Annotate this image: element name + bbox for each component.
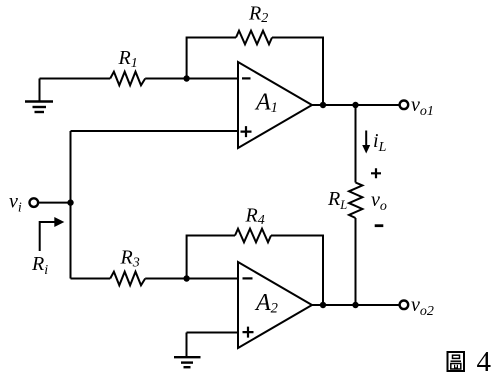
node J3 (R3/R4 junction) — [183, 275, 189, 281]
svg-text:RL: RL — [327, 188, 347, 212]
A1 plus pin mark — [241, 126, 252, 137]
wire: J1 up to R2 feedback — [187, 38, 236, 79]
wire: RL top segment — [355, 105, 357, 183]
node J1 (R1/R2 junction) — [183, 75, 189, 81]
A1 minus pin mark — [242, 77, 251, 79]
svg-text:vo2: vo2 — [411, 294, 434, 319]
wire: input node to R3 — [71, 278, 111, 280]
arrow iL — [365, 131, 367, 147]
wire: A2 output row — [312, 304, 400, 306]
A2 minus pin mark — [243, 277, 253, 279]
resistor R4 — [235, 229, 271, 243]
arrow Ri (input resistance) — [40, 222, 55, 251]
resistor RL (vertical) — [349, 183, 362, 219]
wire: A1 output row — [312, 104, 400, 106]
caption: character 圖 (drawn) — [448, 352, 465, 371]
svg-text:vi: vi — [9, 191, 22, 216]
node: A1 output / RL junction — [352, 102, 358, 108]
svg-text:R4: R4 — [245, 205, 265, 228]
svg-text:iL: iL — [373, 130, 387, 155]
op-amp A1 — [238, 62, 312, 148]
wire: R2 down to A1 output node — [272, 38, 323, 106]
wire: RL bottom segment — [355, 218, 357, 305]
resistor R2 — [236, 31, 272, 45]
resistor R3 — [110, 272, 145, 286]
terminal vi — [30, 198, 39, 207]
wire: A1 plus input — [71, 130, 239, 132]
node: A1 output / feedback junction — [320, 102, 326, 108]
op-amp A2 — [238, 262, 312, 348]
wire: R3 to A2 inverting input — [145, 278, 238, 280]
wire: ground G1 to R1 — [40, 78, 111, 80]
node: A2 output / RL junction — [352, 302, 358, 308]
wire: input vertical — [70, 131, 72, 279]
svg-text:vo: vo — [371, 189, 387, 214]
minus sign (vo polarity) — [375, 224, 384, 227]
wire: J3 up to R4 feedback — [187, 236, 235, 279]
terminal vo1 — [400, 101, 409, 110]
node J2 (input node) — [67, 199, 73, 205]
svg-text:R3: R3 — [120, 247, 140, 271]
node: A2 output / feedback junction — [320, 302, 326, 308]
svg-text:4: 4 — [477, 346, 492, 378]
terminal vo2 — [400, 301, 409, 310]
wire: R1 to A1 inverting input — [145, 78, 238, 80]
svg-text:R2: R2 — [248, 3, 268, 26]
plus sign (vo polarity) — [371, 168, 381, 178]
wire: vi to input node — [38, 202, 71, 204]
ground G1 (top-left) — [25, 79, 53, 113]
ground G2 (below A2) — [174, 333, 201, 368]
svg-text:vo1: vo1 — [411, 94, 434, 119]
wire: A2 plus input — [187, 332, 239, 334]
svg-text:Ri: Ri — [31, 253, 48, 278]
wire: R4 down to A2 output node — [271, 236, 323, 306]
A2 plus pin mark — [243, 327, 254, 338]
svg-text:R1: R1 — [118, 47, 138, 71]
resistor R1 — [110, 72, 145, 86]
